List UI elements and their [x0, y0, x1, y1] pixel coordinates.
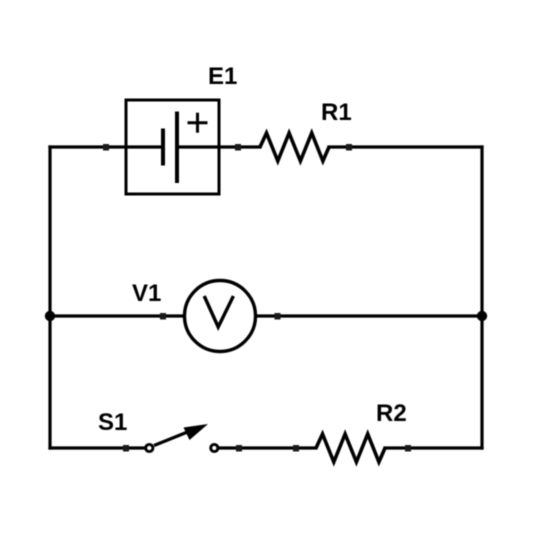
wire R1 to top-right corner	[329, 145, 482, 148]
wire top-left horizontal	[50, 145, 126, 148]
wire left vertical	[48, 147, 51, 448]
svg-text:S1: S1	[98, 409, 127, 436]
svg-text:R2: R2	[376, 400, 407, 427]
pin V1 left	[160, 313, 166, 320]
battery E1	[126, 100, 219, 194]
switch S1	[146, 424, 218, 452]
wire right vertical	[480, 147, 483, 448]
pin R2 left	[293, 445, 299, 452]
wire battery to R1	[219, 145, 260, 148]
pin R1 right	[346, 144, 352, 151]
svg-text:E1: E1	[208, 63, 237, 90]
wire switch to R2	[219, 446, 316, 449]
pin V1 right	[275, 313, 281, 320]
node B (right junction)	[477, 311, 487, 321]
wire R2 to bottom-right corner	[385, 446, 482, 449]
wire middle left (node A to voltmeter)	[50, 314, 183, 317]
pin battery left	[103, 144, 109, 151]
resistor R1	[260, 133, 329, 161]
pin R2 right	[405, 445, 411, 452]
svg-text:V1: V1	[132, 280, 161, 307]
node A (left junction)	[45, 311, 55, 321]
resistor R2	[316, 434, 385, 462]
pin S1 right	[236, 445, 242, 452]
svg-text:R1: R1	[321, 99, 352, 126]
voltmeter V1	[185, 281, 256, 352]
wire bottom left to switch	[50, 446, 145, 449]
pin battery right / R1 left	[235, 144, 241, 151]
wire middle right (voltmeter to node B)	[257, 314, 482, 317]
pin S1 left	[123, 445, 129, 452]
